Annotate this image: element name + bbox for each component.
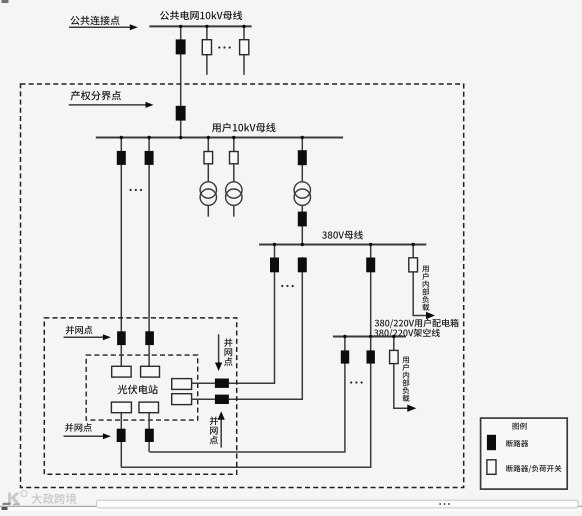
legend symbol: breaker (filled) <box>487 435 496 450</box>
node: PV tie 1 on 380V bus <box>273 243 276 246</box>
arrow: load branch 1 outgoing arrow <box>426 312 435 319</box>
wire: public grid 10kV bus bar <box>149 25 251 27</box>
bottom scrollbar track <box>97 500 579 508</box>
label: 光伏电站 (PV station) <box>118 385 158 395</box>
node: junction feeder 2 on grid bus <box>242 25 245 28</box>
wire: LV branch B (380/220V line down to bottom tie) <box>121 337 371 468</box>
node: LV branch A junction <box>343 335 346 338</box>
node: junction feeder 1 on grid bus <box>205 25 208 28</box>
label: 用户内部负载 vertical (user internal load) 1 <box>422 266 429 311</box>
breaker on PV tie 2 vertical <box>298 258 307 273</box>
node: junction of main line on grid bus <box>179 25 182 28</box>
wire: inverter 3 down through breaker to bottom tie <box>120 413 122 468</box>
wire: inverter 5 to PV right breaker 1 <box>192 382 215 384</box>
switch (open) on load branch 2 <box>390 350 399 363</box>
node: transformer branch 1 on user bus <box>207 136 210 139</box>
inverter unit 6 (right lower) <box>172 394 192 405</box>
breaker above transformer T3 <box>298 150 307 165</box>
breaker on PV feeder 1 <box>117 151 126 165</box>
wire: station transformer branch upper drop <box>301 138 303 183</box>
wire: transformer branch 1 drop <box>207 138 209 183</box>
wire: PV feeder 2 into inverter 2 <box>148 345 150 366</box>
label: 并网点 top-left (grid connection point) <box>66 326 93 335</box>
wire: load branch 2 drop from 380/220V line <box>394 337 409 409</box>
breaker QF1 on main incoming line <box>176 39 186 54</box>
arrow: property boundary annotation arrow <box>69 102 154 108</box>
node: load branch 1 on 380V bus <box>412 243 415 246</box>
breaker PV top 1 <box>117 331 126 345</box>
transformer T3 (two windings) <box>294 182 310 206</box>
inverter unit 5 (right upper) <box>172 379 192 390</box>
bottom-left small artifact marks <box>2 503 21 510</box>
wire: transformer branch 2 drop <box>233 138 235 183</box>
wire: PV feeder 1 vertical (user bus to PV box) <box>120 138 122 333</box>
breaker on LV feeder <box>366 258 375 273</box>
arrow: PCC annotation arrow pointing right <box>69 24 138 30</box>
node: LV feeder junction on 380/220V line <box>369 335 372 338</box>
breaker PV bottom 2 <box>145 429 154 442</box>
label: 断路器/负荷开关 <box>506 465 561 473</box>
inverter unit 2 (top-right) <box>141 366 160 377</box>
node: transformer branch 2 on user bus <box>232 136 235 139</box>
wire: load branch 1 drop from 380V bus <box>413 245 427 316</box>
node: main line junction on user bus <box>179 136 182 139</box>
label: 断路器 (breaker) <box>506 440 528 447</box>
inverter unit 4 (bottom-right) <box>139 402 159 413</box>
label: 公共连接点 (point of common coupling) <box>71 16 120 25</box>
legend box frame <box>481 418 568 489</box>
wire: LV feeder vertical (380V bus to 380/220V line) <box>370 245 372 337</box>
label: 并网点 vertical right-bottom <box>210 417 219 445</box>
breaker on PV feeder 2 <box>145 151 154 165</box>
label: 用户内部负载 vertical (user internal load) 2 <box>402 357 409 402</box>
bottom separator grey line <box>0 505 582 507</box>
switch (open) on load branch 1 <box>409 258 418 272</box>
label: 产权分界点 (property boundary point) <box>71 91 121 101</box>
dashed box: 光伏电站 PV station <box>86 355 198 420</box>
wire: transformer T2 bottom stub <box>233 205 235 216</box>
label: 用户10kV母线 (user 10kV bus) <box>212 123 276 133</box>
wire: LV branch A (380/220V line down to bottom tie) <box>150 337 345 453</box>
wire: main incoming vertical line from grid bus to user bus <box>180 26 182 137</box>
disconnector S2 on grid feeder 2 <box>240 40 249 55</box>
wire: 380V bus bar <box>259 244 426 246</box>
arrow: grid connection point top-left <box>64 334 111 340</box>
arrow: load branch 2 outgoing arrow <box>407 405 416 412</box>
node: LV feeder on 380V bus <box>369 243 372 246</box>
label: 图例 (legend) <box>513 423 527 430</box>
breaker below transformer T3 <box>298 212 307 227</box>
breaker PV right 1 (horizontal) <box>215 379 229 388</box>
wire: PV feeder 2 vertical (user bus to PV box) <box>148 138 150 333</box>
breaker on LV branch B <box>367 350 375 363</box>
wire: T3 secondary down to 380V bus <box>301 205 303 244</box>
label: 380/220V用户配电箱 <box>375 319 459 328</box>
label: 公共电网10kV母线 (public grid 10kV bus) <box>160 11 242 20</box>
inverter unit 1 (top-left) <box>112 366 131 377</box>
wire: transformer T1 bottom stub <box>207 205 209 216</box>
node: PV feeder 1 on user bus <box>120 136 123 139</box>
arrow: 并网点 right-bottom pointing up <box>218 411 225 447</box>
transformer T1 (two windings) <box>200 182 216 206</box>
legend symbol: switch (open) <box>487 460 496 475</box>
ellipsis dots between grid feeders <box>218 46 231 48</box>
label: 380V母线 (380V bus) <box>322 231 363 240</box>
transformer T2 (two windings) <box>226 182 242 206</box>
wire: PV tie 2 (380V bus down, left to PV breaker) <box>228 257 302 399</box>
watermark logo mark <box>8 491 27 505</box>
arrow: grid connection point bottom-left <box>64 433 111 439</box>
breaker on PV tie 1 vertical <box>270 258 279 273</box>
label: 并网点 bottom-left <box>65 423 92 432</box>
top-left corner artifact mark <box>2 0 9 3</box>
disconnector S1 on grid feeder 1 <box>202 40 211 55</box>
wire: PV feeder 1 into inverter 1 <box>120 345 122 366</box>
wire: PV tie 1 (380V bus down, left to PV breaker) <box>228 245 274 384</box>
breaker on LV branch A <box>341 350 349 363</box>
wire: 380/220V distribution line bar <box>333 336 406 338</box>
node: T3 junction on 380V bus <box>301 243 304 246</box>
watermark text 大政跨境 <box>32 493 77 504</box>
arrow: 并网点 right-top pointing down <box>215 334 222 371</box>
node: load branch 2 on 380/220V line <box>392 335 395 338</box>
inverter unit 3 (bottom-left) <box>111 402 131 413</box>
bottom status strip background <box>0 507 582 511</box>
wire: inverter 6 to PV right breaker 2 <box>192 398 215 400</box>
label: 380/220V架空线 <box>374 329 440 338</box>
dashed boundary box: user installation <box>21 84 464 488</box>
breaker QF2 below boundary on main line <box>176 106 186 121</box>
wire: inverter 4 down through breaker to bottom tie <box>148 413 150 452</box>
ellipsis dots between PV ties <box>281 285 294 287</box>
breaker PV bottom 1 <box>117 429 126 442</box>
disconnector on transformer branch 2 <box>230 152 239 164</box>
dashed box: grid-connection interface area <box>44 318 236 474</box>
disconnector on transformer branch 1 <box>204 152 213 164</box>
wire: user 10kV bus bar <box>96 137 343 139</box>
node: station transformer branch on user bus <box>301 136 304 139</box>
node: PV feeder 2 on user bus <box>147 136 150 139</box>
wire: grid feeder stub 2 <box>243 26 245 74</box>
ellipsis dots between LV branches <box>350 381 363 383</box>
ellipsis dots between PV feeders <box>130 189 143 191</box>
wire: grid feeder stub 1 <box>206 26 208 74</box>
breaker PV top 2 <box>145 331 154 345</box>
label: 并网点 vertical right-top <box>224 338 233 366</box>
breaker PV right 2 (horizontal) <box>215 395 229 404</box>
